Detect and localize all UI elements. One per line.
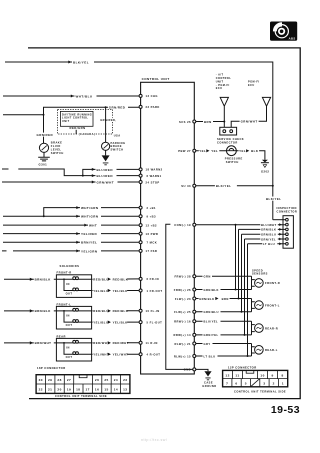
junction BLK/YEL vertical bbox=[272, 185, 274, 187]
wire YEL-YEL from PBW 27 bbox=[196, 150, 227, 152]
wire GRN/BLU inspection pin 4 bbox=[242, 233, 286, 235]
svg-text:ECU: ECU bbox=[216, 87, 223, 90]
solenoid coil REAR OUT bbox=[73, 352, 76, 355]
pin numbers 12P top row bbox=[225, 373, 283, 377]
terminal 9 +B3 bbox=[139, 215, 142, 218]
junction BRN / A-T triangle bbox=[223, 121, 225, 123]
svg-text:27: 27 bbox=[67, 378, 71, 382]
svg-text:INSPECTION: INSPECTION bbox=[277, 206, 297, 210]
wire RED/GRN drop bbox=[75, 130, 77, 134]
svg-text:LT BLU: LT BLU bbox=[263, 242, 275, 246]
svg-text:GRN/BLK: GRN/BLK bbox=[204, 288, 219, 292]
wire YEL-BLK to ground bbox=[236, 151, 265, 160]
terminal RRW(-) 16 bbox=[193, 320, 196, 323]
svg-text:FLW(+) 25: FLW(+) 25 bbox=[174, 310, 191, 314]
svg-text:YEL/WHT: YEL/WHT bbox=[113, 353, 129, 357]
svg-text:WHT: WHT bbox=[89, 224, 97, 228]
svg-text:IN: IN bbox=[66, 282, 70, 286]
svg-text:CONNECTOR: CONNECTOR bbox=[217, 141, 238, 145]
svg-text:YEL/BLK: YEL/BLK bbox=[113, 289, 128, 293]
svg-text:3: 3 bbox=[263, 382, 265, 386]
svg-text:SWITCH: SWITCH bbox=[111, 148, 124, 152]
svg-text:BLU/YEL: BLU/YEL bbox=[204, 320, 219, 324]
junction at brake fluid riser bbox=[43, 114, 45, 116]
terminal SCS 26 bbox=[193, 120, 196, 123]
svg-text:13 CHG: 13 CHG bbox=[146, 94, 158, 98]
svg-text:PBW 27: PBW 27 bbox=[178, 149, 191, 153]
pin numbers 18P bottom row bbox=[39, 388, 128, 392]
svg-text:24 STOP: 24 STOP bbox=[146, 180, 160, 184]
wire BLK/YEL from SU 33 bbox=[196, 185, 273, 187]
svg-text:LT BLU: LT BLU bbox=[204, 354, 216, 358]
svg-text:17 FSR: 17 FSR bbox=[146, 249, 158, 253]
terminal 18 WARN2 bbox=[139, 168, 142, 171]
svg-text:G301: G301 bbox=[39, 163, 48, 167]
svg-text:7 MCK: 7 MCK bbox=[147, 241, 158, 245]
svg-text:18P CONNECTOR: 18P CONNECTOR bbox=[37, 366, 66, 370]
wire GRN/BLU (FLW+) bbox=[196, 311, 252, 313]
svg-text:REAR: REAR bbox=[57, 334, 66, 338]
inspection pin 6 bbox=[286, 243, 289, 246]
speed sensor REAR-R bbox=[252, 321, 255, 335]
svg-text:6 WARN1: 6 WARN1 bbox=[147, 174, 162, 178]
label (CANADA) bbox=[78, 132, 95, 136]
svg-text:GRN/BLK: GRN/BLK bbox=[199, 297, 214, 301]
svg-text:GROUND: GROUND bbox=[202, 384, 216, 388]
svg-text:10: 10 bbox=[260, 373, 264, 377]
svg-text:SCS 26: SCS 26 bbox=[179, 120, 191, 124]
svg-text:FLW(-) 23: FLW(-) 23 bbox=[175, 297, 191, 301]
svg-text:16: 16 bbox=[95, 388, 99, 392]
svg-text:FRONT-R: FRONT-R bbox=[265, 281, 280, 285]
svg-text:(CANADA): (CANADA) bbox=[79, 132, 96, 136]
svg-text:WHT/BLU: WHT/BLU bbox=[76, 94, 93, 98]
speed sensor REAR-L bbox=[252, 344, 255, 357]
svg-text:24: 24 bbox=[114, 378, 118, 382]
svg-text:26: 26 bbox=[95, 378, 99, 382]
wire YEL/WHT - YEL/WHT to 4 R-OUT bbox=[92, 353, 140, 355]
svg-text:YEL/BLK: YEL/BLK bbox=[113, 321, 128, 325]
svg-text:1 FR-OUT: 1 FR-OUT bbox=[147, 289, 163, 293]
wire GND to case ground bbox=[196, 369, 208, 371]
terminal RLW(+) 15 bbox=[193, 355, 196, 358]
terminal SU 33 bbox=[193, 184, 196, 187]
label GRN/RED (riser) bbox=[36, 133, 52, 137]
svg-text:12P CONNECTOR: 12P CONNECTOR bbox=[228, 366, 257, 370]
junction WARN wires bbox=[82, 175, 84, 177]
svg-text:BRN: BRN bbox=[222, 297, 229, 301]
terminal 13 CHG bbox=[139, 94, 142, 97]
wire BLU/WHT COM(-) to inspection pin 2 bbox=[196, 224, 286, 226]
svg-text:1: 1 bbox=[282, 382, 284, 386]
svg-text:6 FR-IN: 6 FR-IN bbox=[147, 277, 160, 281]
brake fluid level switch bbox=[39, 143, 48, 152]
label GRN/RED (parking riser) bbox=[100, 118, 113, 122]
wire RED/WHT - RED/WHT to 11 R-IN bbox=[92, 342, 140, 344]
svg-text:7: 7 bbox=[226, 382, 228, 386]
label GRN/RED (to PARK) bbox=[108, 105, 128, 109]
svg-text:21: 21 bbox=[48, 388, 52, 392]
connector 12P key tab bbox=[246, 370, 254, 373]
svg-text:OUT: OUT bbox=[66, 355, 73, 359]
svg-text:23: 23 bbox=[123, 378, 127, 382]
svg-text:IN: IN bbox=[66, 314, 70, 318]
svg-text:GRN/YEL: GRN/YEL bbox=[261, 237, 276, 241]
terminal FRW(-) 28 bbox=[193, 275, 196, 278]
wire GRN/YEL (RRW+) bbox=[196, 334, 252, 336]
svg-text:RED/BLU: RED/BLU bbox=[93, 309, 109, 313]
svg-text:RED/BLK: RED/BLK bbox=[113, 309, 129, 313]
wire YEL/BLU - YEL/BLK to 5 FL-OUT bbox=[92, 321, 140, 323]
wire BRN from SCS 26 bbox=[196, 121, 225, 123]
svg-text:YEL/BLU: YEL/BLU bbox=[93, 289, 108, 293]
svg-text:23 PARK: 23 PARK bbox=[146, 105, 160, 109]
svg-text:IN: IN bbox=[66, 346, 70, 350]
solenoid coil FRONT-R OUT bbox=[73, 288, 76, 291]
svg-text:11: 11 bbox=[235, 373, 239, 377]
svg-text:BLK/YEL: BLK/YEL bbox=[266, 197, 282, 201]
pin numbers 12P bottom row bbox=[226, 382, 284, 386]
svg-text:YEL: YEL bbox=[239, 149, 246, 153]
terminal 1 FR-OUT bbox=[139, 289, 142, 292]
bus vertical GRN/BLK bbox=[238, 229, 240, 298]
svg-text:GRN/RED: GRN/RED bbox=[37, 133, 53, 137]
svg-text:YEL/BLU: YEL/BLU bbox=[93, 321, 108, 325]
svg-text:15: 15 bbox=[104, 388, 108, 392]
svg-text:RED/WHT: RED/WHT bbox=[93, 341, 109, 345]
junction at parking riser bbox=[105, 106, 107, 108]
wire YEL/GRN to 17 FSR bbox=[2, 250, 139, 252]
terminal RRW(+) 14 bbox=[193, 333, 196, 336]
terminal 23 PARK bbox=[139, 105, 142, 108]
svg-text:YEL/RED: YEL/RED bbox=[81, 232, 98, 236]
svg-text:GRY: GRY bbox=[204, 342, 211, 346]
svg-text:GRN/BLU: GRN/BLU bbox=[204, 310, 219, 314]
svg-text:FRONT-L: FRONT-L bbox=[57, 302, 72, 306]
svg-text:GRN: GRN bbox=[204, 275, 211, 279]
wire GRN/BLK inspection pin 3 bbox=[239, 228, 286, 230]
svg-text:13: 13 bbox=[123, 388, 127, 392]
svg-text:RLW(+) 15: RLW(+) 15 bbox=[174, 354, 191, 358]
pin numbers 18P top row bbox=[39, 378, 128, 382]
bus vertical GRN/YEL bbox=[244, 239, 246, 335]
wire GRN/RED to 23 PARK bbox=[3, 107, 139, 143]
pressure switch bbox=[227, 146, 237, 156]
speed sensor FRONT-R bbox=[252, 276, 255, 289]
svg-text:CONTROL UNIT: CONTROL UNIT bbox=[142, 77, 170, 81]
svg-text:25: 25 bbox=[104, 378, 108, 382]
wire YEL/BLU - YEL/BLK to 1 FR-OUT bbox=[92, 290, 140, 292]
svg-text:6: 6 bbox=[235, 382, 237, 386]
speed sensor FRONT-L bbox=[252, 299, 255, 312]
svg-text:BRN/BLK: BRN/BLK bbox=[35, 309, 52, 313]
svg-text:FRONT-L: FRONT-L bbox=[265, 303, 280, 307]
svg-text:BRN: BRN bbox=[204, 120, 212, 124]
svg-text:RED/BLK: RED/BLK bbox=[113, 277, 129, 281]
wire BRN/YEL to 7 MCK bbox=[3, 241, 139, 243]
solenoid coil FRONT-R IN bbox=[73, 277, 76, 280]
svg-text:22: 22 bbox=[39, 388, 43, 392]
wire GRN/YEL inspection pin 5 bbox=[245, 238, 286, 240]
wire BLU/RED pair to WARN1/WARN2 bbox=[2, 169, 139, 176]
svg-text:YEL: YEL bbox=[199, 149, 206, 153]
svg-text:REAR-R: REAR-R bbox=[265, 326, 278, 330]
svg-text:ECU: ECU bbox=[248, 84, 255, 87]
svg-text:10 FL-IN: 10 FL-IN bbox=[146, 309, 160, 313]
svg-text:CONTROL UNIT TERMINAL SIDE: CONTROL UNIT TERMINAL SIDE bbox=[234, 389, 286, 393]
page frame border bbox=[28, 48, 300, 399]
connector symbol A/T control unit + PGM-FI ECU bbox=[220, 97, 228, 129]
wire GRN/BLK (FRW+) bbox=[196, 289, 252, 291]
inspection pin 2 bbox=[286, 223, 289, 226]
svg-text:BLU/RED: BLU/RED bbox=[97, 174, 114, 178]
solenoid coil FRONT-L OUT bbox=[73, 320, 76, 323]
svg-text:RED/BLU: RED/BLU bbox=[93, 277, 109, 281]
svg-text:12: 12 bbox=[225, 373, 229, 377]
svg-text:GRN/WHT: GRN/WHT bbox=[97, 180, 114, 184]
solenoid coil REAR IN bbox=[73, 340, 76, 343]
wire BLU/YEL (RRW-) bbox=[196, 320, 252, 322]
svg-text:BLU/RED: BLU/RED bbox=[97, 168, 114, 172]
svg-text:BRAKE: BRAKE bbox=[51, 141, 62, 145]
svg-text:GRN/BLU: GRN/BLU bbox=[261, 233, 276, 237]
wire GRN/BLK-BRN (FLW-) bbox=[196, 298, 252, 300]
wire GRN (FRW-) bbox=[196, 275, 252, 277]
svg-text:LEVEL: LEVEL bbox=[51, 147, 62, 151]
wire BLK/YEL main feed bbox=[5, 62, 273, 220]
svg-text:PARKING: PARKING bbox=[111, 141, 126, 145]
svg-text:USA: USA bbox=[114, 134, 121, 138]
svg-text:20: 20 bbox=[57, 388, 61, 392]
svg-text:16 PWR: 16 PWR bbox=[146, 232, 159, 236]
wire parking brake riser bbox=[105, 107, 107, 142]
svg-text:18: 18 bbox=[76, 388, 80, 392]
svg-text:YEL/WHT: YEL/WHT bbox=[93, 353, 109, 357]
wire RED/BLU - RED/BLK to 10 FL-IN bbox=[92, 310, 140, 312]
svg-text:GRN/BLK: GRN/BLK bbox=[261, 228, 276, 232]
terminal FLW(-) 23 bbox=[193, 297, 196, 300]
solenoid coil FRONT-L IN bbox=[73, 308, 76, 311]
inspection pin 3 bbox=[286, 228, 289, 231]
label BLK/YEL (vertical) bbox=[265, 197, 285, 201]
svg-text:RED/WHT: RED/WHT bbox=[113, 341, 129, 345]
svg-text:REAR-L: REAR-L bbox=[265, 348, 278, 352]
ground G202 bbox=[262, 160, 268, 163]
svg-text:WHT/GRN: WHT/GRN bbox=[81, 215, 98, 219]
terminal GND bbox=[193, 368, 196, 371]
svg-text:8: 8 bbox=[282, 373, 284, 377]
wire LT BLU inspection pin 6 bbox=[248, 243, 286, 245]
terminal 5 FL-OUT bbox=[139, 321, 142, 324]
svg-text:17: 17 bbox=[86, 388, 90, 392]
svg-text:BLU/WHT: BLU/WHT bbox=[261, 223, 277, 227]
terminal 17 FSR bbox=[139, 249, 142, 252]
svg-text:FRONT-R: FRONT-R bbox=[57, 271, 72, 275]
ABS logo bbox=[270, 22, 297, 41]
svg-text:ABS: ABS bbox=[289, 37, 296, 41]
terminal 24 STOP bbox=[139, 181, 142, 184]
wire WHT to 12 +B2 bbox=[3, 224, 139, 226]
terminal 16 PWR bbox=[139, 232, 142, 235]
svg-text:SWITCH: SWITCH bbox=[226, 160, 239, 164]
svg-text:CONNECTOR: CONNECTOR bbox=[277, 210, 298, 214]
wire GRN/WHT bbox=[231, 106, 266, 127]
svg-text:SU 33: SU 33 bbox=[181, 184, 191, 188]
svg-text:FLUID: FLUID bbox=[51, 144, 61, 148]
terminal 6 WARN1 bbox=[139, 174, 142, 177]
svg-text:RRW(+) 14: RRW(+) 14 bbox=[173, 333, 191, 337]
svg-text:30: 30 bbox=[39, 378, 43, 382]
svg-text:BLK/YEL: BLK/YEL bbox=[73, 60, 89, 64]
svg-text:9: 9 bbox=[272, 373, 274, 377]
svg-text:G202: G202 bbox=[261, 170, 269, 174]
svg-text:BRN/YEL: BRN/YEL bbox=[81, 241, 97, 245]
svg-text:5: 5 bbox=[245, 382, 247, 386]
connector 12P blocked pin 4 bbox=[251, 379, 260, 387]
wire WHT/GRN to 9 +B3 bbox=[3, 215, 139, 217]
svg-text:UNIT: UNIT bbox=[62, 120, 70, 123]
svg-text:YEL/GRN: YEL/GRN bbox=[81, 249, 98, 253]
wire BLK/YEL to inspection pin 1 bbox=[273, 219, 286, 221]
wire LT BLU (RLW+) bbox=[196, 355, 252, 357]
bus vertical LT BLU bbox=[247, 244, 249, 356]
svg-text:GRN/RED,: GRN/RED, bbox=[100, 118, 116, 122]
connector symbol PGM-FI ECU bbox=[262, 97, 270, 106]
svg-text:SPEED: SPEED bbox=[252, 268, 263, 272]
parking brake switch bbox=[102, 142, 110, 150]
terminal FLW(+) 25 bbox=[193, 310, 196, 313]
terminal 6 FR-IN bbox=[139, 277, 142, 280]
svg-text:5 FL-OUT: 5 FL-OUT bbox=[147, 320, 163, 324]
svg-text:GRN/WHT: GRN/WHT bbox=[241, 120, 258, 124]
terminal COM(-) 19 bbox=[193, 223, 196, 226]
terminal 7 MCK bbox=[139, 241, 142, 244]
inspection pin 4 bbox=[286, 233, 289, 236]
svg-text:BRAKE: BRAKE bbox=[111, 144, 122, 148]
terminal 4 R-OUT bbox=[139, 353, 142, 356]
svg-text:BLK: BLK bbox=[251, 149, 259, 153]
terminal FRW(+) 26 bbox=[193, 288, 196, 291]
wire GRY (RLW-) bbox=[196, 343, 252, 345]
svg-text:COM(-) 19: COM(-) 19 bbox=[174, 223, 191, 227]
wire GRN/WHT to 24 STOP bbox=[2, 181, 139, 183]
svg-text:2: 2 bbox=[273, 382, 275, 386]
svg-text:YEL: YEL bbox=[211, 149, 218, 153]
terminal 11 R-IN bbox=[139, 341, 142, 344]
svg-text:RRW(-) 16: RRW(-) 16 bbox=[174, 320, 191, 324]
bus vertical BLU/WHT bbox=[235, 225, 237, 290]
svg-text:28: 28 bbox=[57, 378, 61, 382]
svg-text:SWITCH: SWITCH bbox=[51, 151, 64, 155]
svg-text:RLW(-) 21: RLW(-) 21 bbox=[175, 342, 191, 346]
svg-text:FRW(+) 26: FRW(+) 26 bbox=[174, 288, 191, 292]
svg-text:BRN/WHT: BRN/WHT bbox=[35, 341, 52, 345]
svg-text:9 +B3: 9 +B3 bbox=[147, 215, 157, 219]
terminal PBW 27 bbox=[193, 149, 196, 152]
svg-text:12 +B2: 12 +B2 bbox=[146, 223, 157, 227]
svg-text:14: 14 bbox=[114, 388, 118, 392]
svg-text:WHT/GRN: WHT/GRN bbox=[81, 206, 98, 210]
terminal 12 +B2 bbox=[139, 224, 142, 227]
svg-text:RED/GRN: RED/GRN bbox=[70, 126, 86, 130]
svg-text:19: 19 bbox=[67, 388, 71, 392]
control unit internal GND bus from COM(-) bbox=[166, 224, 193, 369]
svg-text:2 +B1: 2 +B1 bbox=[147, 206, 157, 210]
inspection pin 1 bbox=[286, 218, 289, 221]
svg-text:11 R-IN: 11 R-IN bbox=[146, 341, 158, 345]
ground (parking brake switch) bbox=[105, 150, 107, 155]
terminal 2 +B1 bbox=[139, 206, 142, 209]
wire RED/BLU - RED/BLK to 6 FR-IN bbox=[92, 278, 140, 280]
svg-text:BRN/BLK: BRN/BLK bbox=[35, 278, 52, 282]
ground case ground bbox=[204, 371, 211, 376]
wire YEL/RED to 16 PWR bbox=[3, 233, 139, 235]
svg-text:29: 29 bbox=[48, 378, 52, 382]
svg-text:FRW(-) 28: FRW(-) 28 bbox=[174, 275, 191, 279]
svg-text:19-53: 19-53 bbox=[271, 404, 300, 416]
svg-text:nttp://txc.sw/: nttp://txc.sw/ bbox=[141, 438, 167, 442]
svg-text:OUT: OUT bbox=[66, 323, 73, 327]
terminal 10 FL-IN bbox=[139, 309, 142, 312]
svg-text:BLK/YEL: BLK/YEL bbox=[216, 184, 232, 188]
svg-text:GRN/YEL: GRN/YEL bbox=[204, 333, 219, 337]
daytime running light control unit (dashed, Canada) bbox=[58, 109, 113, 134]
bus vertical GRN/BLU bbox=[241, 234, 243, 312]
svg-text:OUT: OUT bbox=[66, 292, 73, 296]
connector 18P key tab bbox=[79, 375, 87, 378]
svg-text:CONTROL UNIT TERMINAL SIDE: CONTROL UNIT TERMINAL SIDE bbox=[55, 394, 107, 398]
svg-text:GND: GND bbox=[184, 368, 191, 372]
svg-text:SENSORS: SENSORS bbox=[252, 272, 268, 276]
ground G301 bbox=[38, 152, 50, 161]
terminal RLW(-) 21 bbox=[193, 342, 196, 345]
svg-text:4 R-OUT: 4 R-OUT bbox=[147, 353, 161, 357]
inspection pin arrows bbox=[279, 223, 282, 245]
service check connector bbox=[220, 127, 237, 135]
inspection pin 5 bbox=[286, 238, 289, 241]
svg-text:18 WARN2: 18 WARN2 bbox=[146, 168, 163, 172]
wire WHT/BLU to 13 CHG bbox=[3, 95, 139, 97]
svg-text:SOLENOIDS: SOLENOIDS bbox=[60, 264, 80, 268]
wire WHT/GRN to 2 +B1 bbox=[44, 208, 139, 217]
